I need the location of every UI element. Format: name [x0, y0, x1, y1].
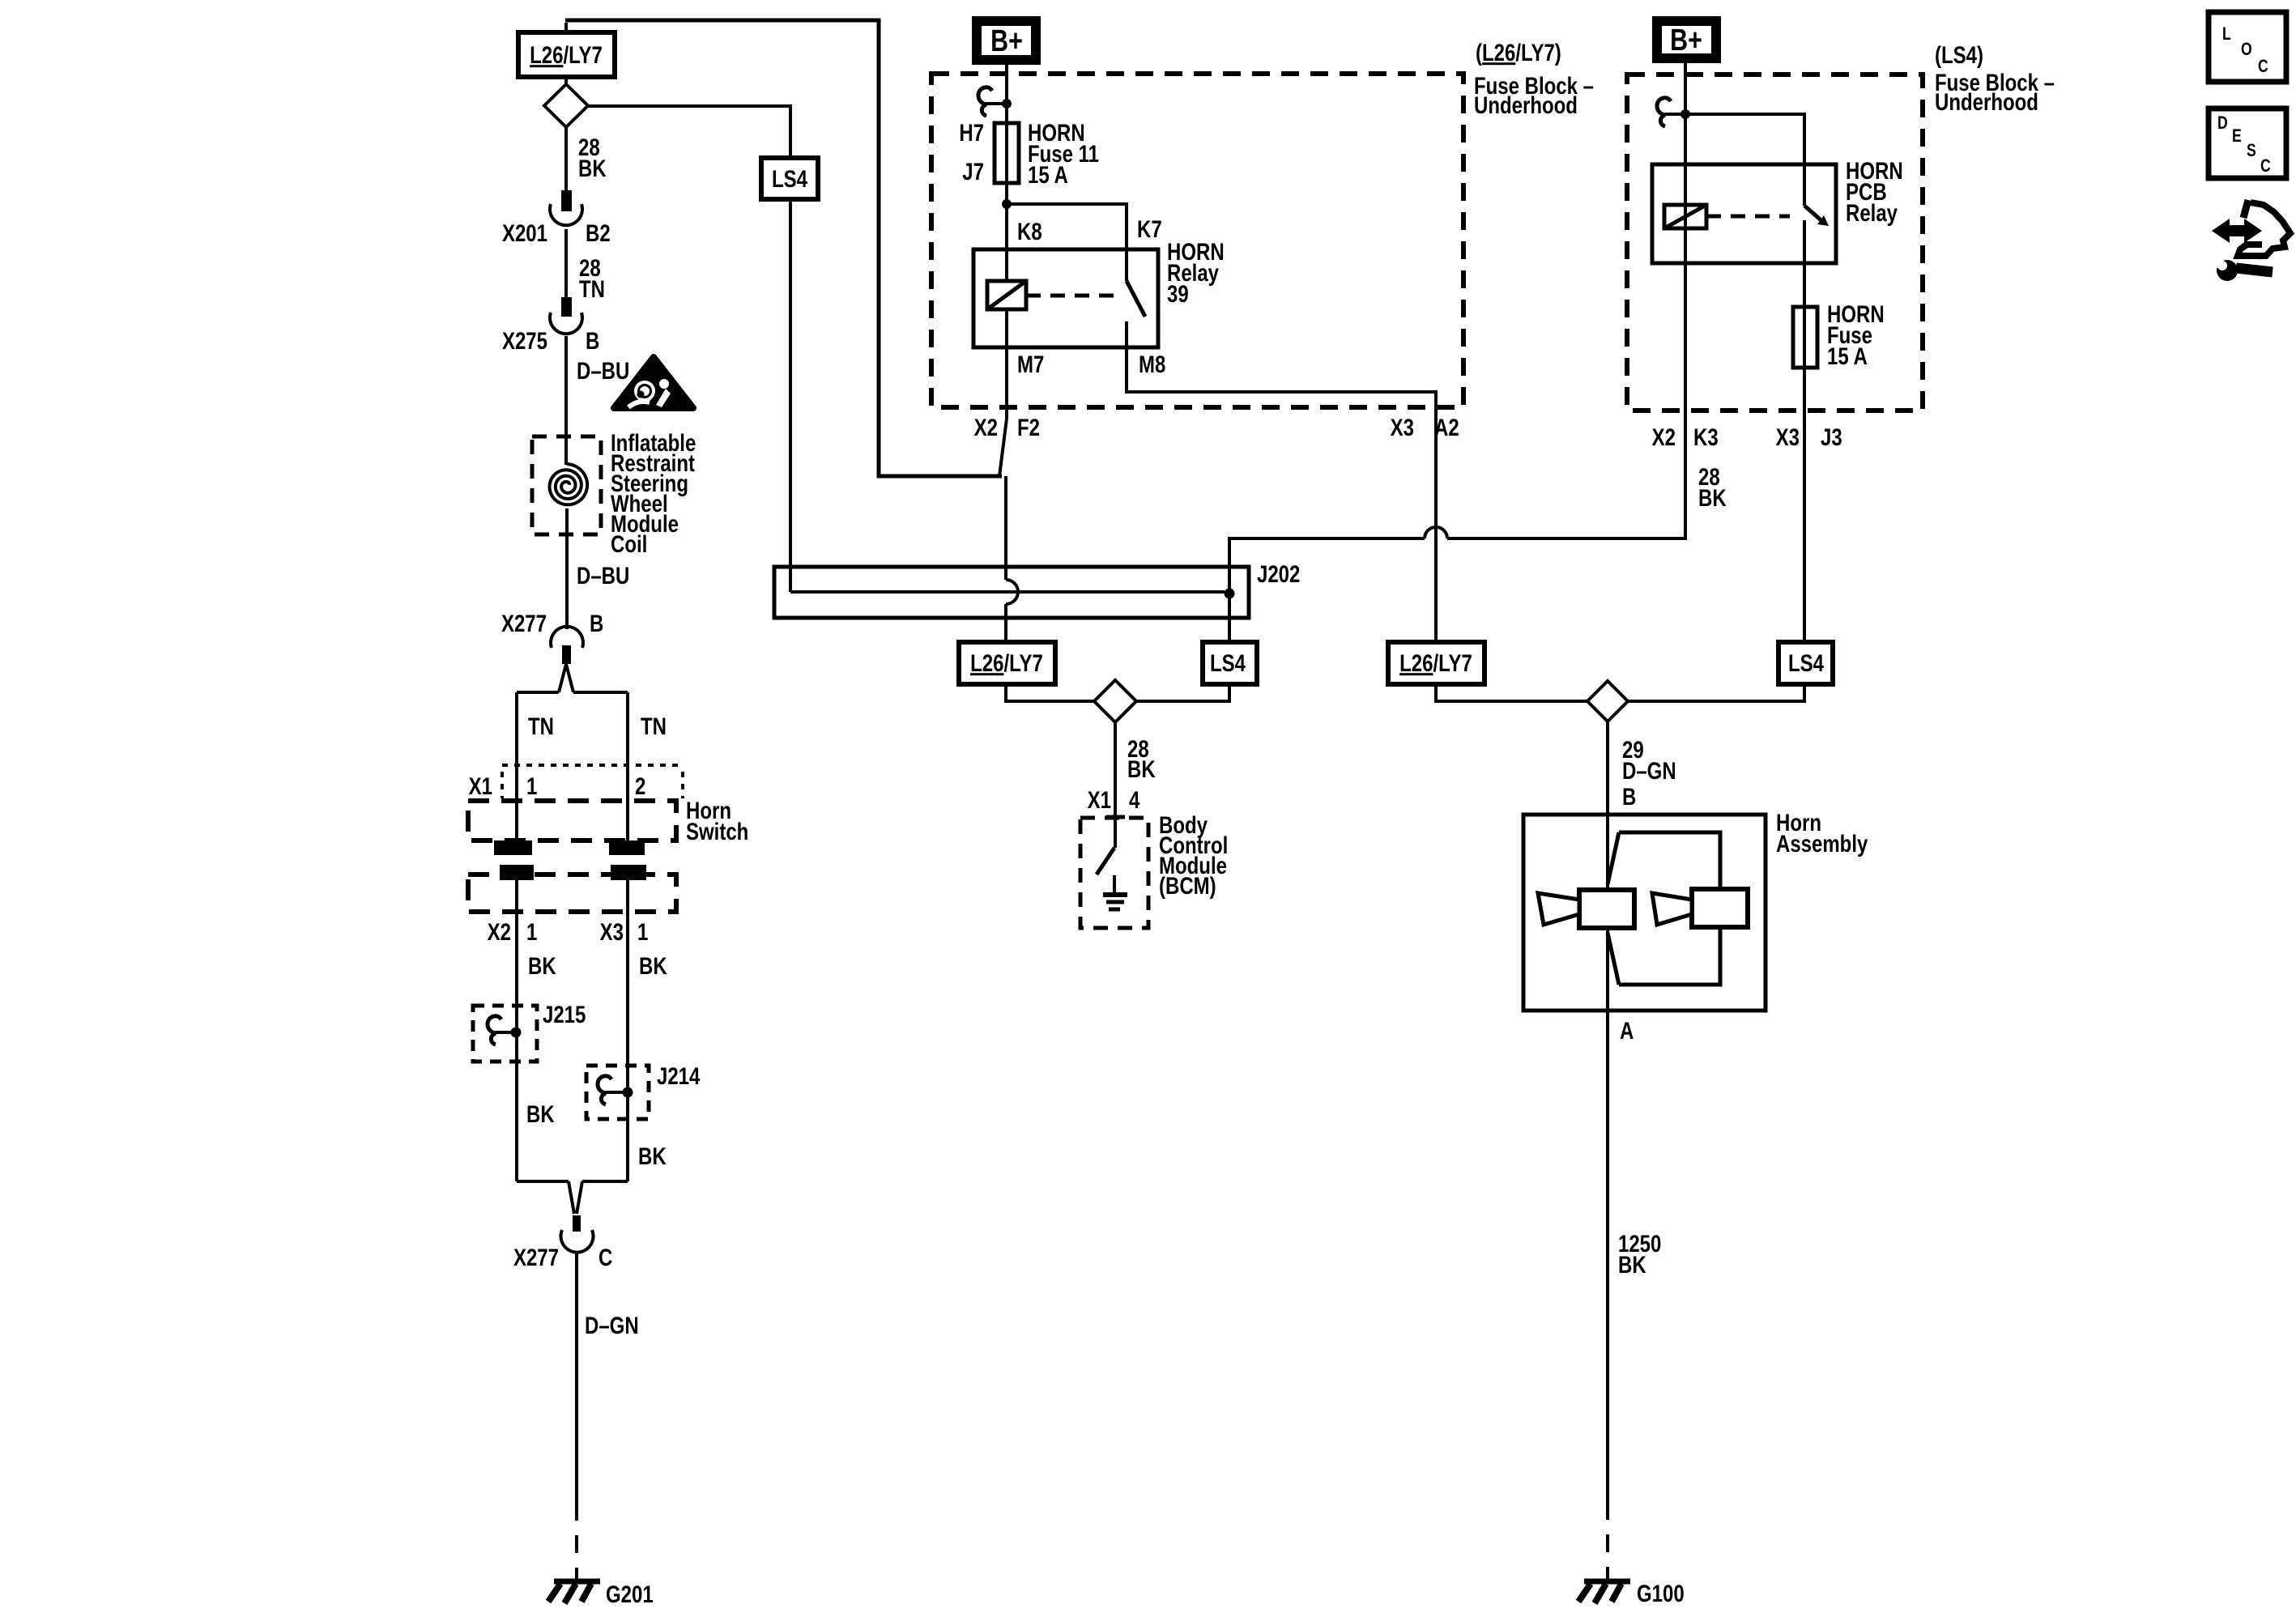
svg-text:15 A: 15 A — [1827, 342, 1868, 369]
svg-text:X3: X3 — [600, 917, 624, 945]
svg-text:M7: M7 — [1017, 350, 1044, 377]
svg-text:B: B — [590, 609, 603, 636]
svg-text:(L26/LY7): (L26/LY7) — [1476, 38, 1561, 66]
svg-text:LS4: LS4 — [772, 164, 807, 192]
svg-text:X2: X2 — [1652, 423, 1676, 450]
svg-text:S: S — [2247, 141, 2256, 160]
svg-text:L: L — [2222, 24, 2231, 44]
svg-text:39: 39 — [1167, 279, 1189, 307]
svg-text:X2: X2 — [488, 917, 511, 945]
svg-text:(LS4): (LS4) — [1935, 40, 1983, 68]
svg-text:1: 1 — [637, 917, 648, 945]
svg-text:B2: B2 — [586, 219, 611, 246]
svg-text:L26/LY7: L26/LY7 — [530, 40, 603, 68]
svg-text:D–BU: D–BU — [577, 561, 629, 589]
svg-text:Underhood: Underhood — [1935, 87, 2038, 115]
svg-text:J214: J214 — [657, 1062, 700, 1089]
svg-text:J7: J7 — [962, 157, 984, 185]
svg-text:A2: A2 — [1434, 413, 1459, 440]
svg-text:X3: X3 — [1391, 413, 1414, 440]
svg-text:X2: X2 — [974, 413, 998, 440]
svg-text:B: B — [1622, 782, 1636, 810]
svg-text:E: E — [2232, 126, 2242, 146]
svg-text:C: C — [2258, 57, 2268, 76]
svg-text:BK: BK — [1618, 1250, 1646, 1278]
svg-text:BK: BK — [639, 951, 667, 979]
svg-text:B+: B+ — [1670, 23, 1702, 57]
svg-text:J3: J3 — [1821, 423, 1842, 450]
svg-text:LS4: LS4 — [1788, 649, 1824, 676]
svg-text:H7: H7 — [959, 118, 984, 146]
svg-text:M8: M8 — [1139, 350, 1165, 377]
svg-text:X275: X275 — [502, 326, 547, 354]
svg-text:2: 2 — [635, 772, 645, 799]
svg-text:D–GN: D–GN — [1622, 756, 1676, 784]
svg-text:Underhood: Underhood — [1474, 91, 1578, 118]
svg-text:1: 1 — [526, 772, 537, 799]
svg-text:L26/LY7: L26/LY7 — [1399, 649, 1472, 676]
svg-text:BK: BK — [638, 1142, 667, 1169]
svg-text:(BCM): (BCM) — [1159, 871, 1216, 899]
svg-text:BK: BK — [1127, 755, 1156, 782]
svg-text:TN: TN — [579, 274, 605, 302]
svg-text:A: A — [1620, 1016, 1634, 1044]
svg-text:4: 4 — [1129, 785, 1139, 813]
svg-text:K7: K7 — [1137, 215, 1162, 242]
svg-text:B: B — [586, 326, 599, 354]
svg-text:X277: X277 — [513, 1243, 559, 1270]
svg-text:Switch: Switch — [686, 817, 748, 845]
svg-text:X201: X201 — [502, 219, 547, 246]
svg-text:BK: BK — [1698, 483, 1727, 511]
svg-text:TN: TN — [641, 712, 667, 739]
svg-text:BK: BK — [526, 1100, 555, 1127]
svg-text:BK: BK — [578, 154, 607, 181]
svg-text:1: 1 — [526, 917, 537, 945]
svg-text:X277: X277 — [501, 609, 547, 636]
svg-text:B+: B+ — [990, 24, 1023, 58]
svg-text:D: D — [2217, 113, 2228, 133]
svg-text:O: O — [2241, 40, 2252, 59]
svg-text:TN: TN — [528, 712, 554, 739]
svg-text:X1: X1 — [1088, 785, 1111, 813]
svg-text:Relay: Relay — [1846, 198, 1898, 226]
svg-text:Coil: Coil — [611, 530, 647, 557]
svg-text:J215: J215 — [543, 1000, 586, 1028]
svg-text:F2: F2 — [1017, 413, 1040, 440]
svg-text:BK: BK — [528, 951, 556, 979]
svg-text:K8: K8 — [1017, 217, 1042, 245]
svg-text:K3: K3 — [1693, 423, 1719, 450]
svg-text:L26/LY7: L26/LY7 — [970, 649, 1043, 676]
svg-text:J202: J202 — [1257, 560, 1300, 587]
svg-text:C: C — [2260, 156, 2271, 176]
svg-text:G100: G100 — [1637, 1579, 1685, 1606]
svg-text:Assembly: Assembly — [1776, 829, 1868, 857]
svg-text:LS4: LS4 — [1210, 649, 1246, 676]
svg-text:D–BU: D–BU — [577, 356, 629, 384]
svg-text:15 A: 15 A — [1028, 160, 1068, 188]
svg-text:C: C — [598, 1243, 612, 1270]
svg-text:X1: X1 — [469, 772, 492, 799]
svg-text:D–GN: D–GN — [585, 1311, 639, 1338]
svg-text:G201: G201 — [606, 1580, 654, 1607]
svg-text:X3: X3 — [1776, 423, 1800, 450]
